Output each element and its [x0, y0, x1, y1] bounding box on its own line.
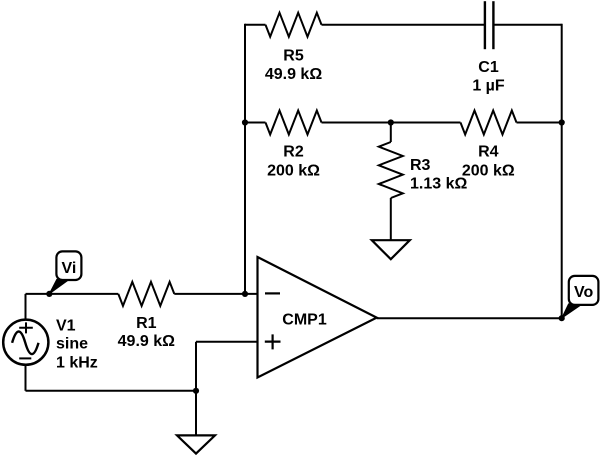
- op-amp CMP1: [258, 257, 377, 378]
- junction minus node: [242, 291, 248, 297]
- svg-text:R5: R5: [283, 48, 304, 65]
- ground for V1: [177, 435, 215, 453]
- svg-text:49.9 kΩ: 49.9 kΩ: [118, 333, 175, 350]
- wire V1 top stub: [25, 294, 27, 319]
- svg-text:Vo: Vo: [574, 284, 593, 301]
- svg-text:1 kHz: 1 kHz: [56, 355, 98, 372]
- resistor R3: [379, 142, 403, 198]
- svg-text:CMP1: CMP1: [282, 311, 327, 328]
- svg-text:R3: R3: [410, 157, 431, 174]
- pin plus: [265, 334, 281, 349]
- svg-text:1.13 kΩ: 1.13 kΩ: [410, 176, 467, 193]
- svg-text:R1: R1: [136, 315, 157, 332]
- svg-text:V1: V1: [56, 318, 76, 335]
- wire middle row left segment: [245, 122, 266, 124]
- svg-text:C1: C1: [478, 59, 499, 76]
- wire right output column: [561, 24, 563, 319]
- junction ground node: [193, 388, 199, 394]
- wire R3 bottom stub: [390, 198, 392, 240]
- pin minus: [265, 292, 280, 294]
- voltage source V1: [3, 320, 48, 365]
- svg-text:1 µF: 1 µF: [472, 78, 505, 95]
- svg-text:Vi: Vi: [61, 260, 76, 277]
- svg-text:200 kΩ: 200 kΩ: [267, 163, 320, 180]
- wire top-left segment (node Vo feedback top rail): [245, 24, 266, 26]
- node Vi flag: [49, 251, 81, 294]
- wire R3 top stub: [390, 123, 392, 143]
- resistor R5: [266, 13, 322, 37]
- node Vo flag: [562, 276, 599, 318]
- svg-text:49.9 kΩ: 49.9 kΩ: [265, 66, 322, 83]
- capacitor C1: [485, 1, 494, 49]
- wire input row left segment: [26, 293, 119, 295]
- svg-text:R2: R2: [283, 144, 304, 161]
- junction left column / middle row: [242, 119, 248, 125]
- junction Vi tap: [46, 291, 52, 297]
- wire bottom rail: [26, 390, 197, 392]
- wire input row right segment: [174, 293, 257, 295]
- svg-text:200 kΩ: 200 kΩ: [462, 163, 515, 180]
- wire plus-input column: [195, 342, 197, 436]
- resistor R2: [266, 111, 322, 135]
- wire V1 bottom stub: [25, 366, 27, 391]
- wire middle row center segment: [322, 122, 461, 124]
- svg-text:sine: sine: [56, 336, 88, 353]
- wire top middle segment: [322, 24, 485, 26]
- junction output node: [559, 315, 565, 321]
- ground for R3: [372, 240, 410, 259]
- wire output row: [377, 317, 562, 319]
- wire plus-input row: [196, 341, 258, 343]
- wire top right segment: [493, 24, 561, 26]
- wire middle row right segment: [517, 122, 562, 124]
- svg-text:R4: R4: [478, 144, 499, 161]
- resistor R4: [461, 111, 517, 135]
- junction right column / middle row: [559, 119, 565, 125]
- junction R3 tap: [388, 119, 394, 125]
- wire left feedback column: [244, 24, 246, 294]
- resistor R1: [118, 282, 174, 306]
